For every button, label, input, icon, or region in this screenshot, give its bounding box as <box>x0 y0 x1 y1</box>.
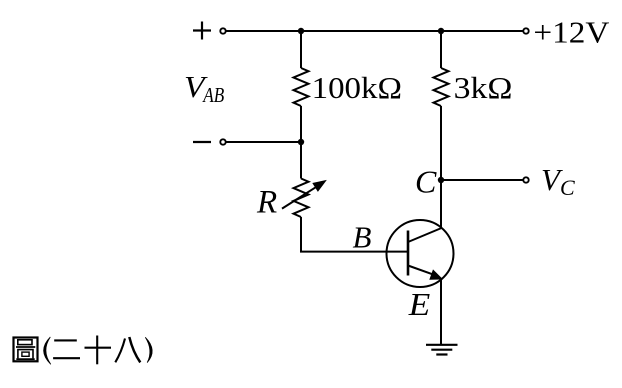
wire top rail to 3k resistor <box>440 31 442 68</box>
junction node C <box>438 177 444 183</box>
terminal +12V (open circle) <box>523 28 528 33</box>
svg-text:100kΩ: 100kΩ <box>312 70 402 105</box>
wire junction to +12V terminal <box>441 30 523 32</box>
plus sign of input <box>193 22 211 40</box>
caption glyph tu (figure) <box>14 338 38 362</box>
terminal + (open circle) <box>220 28 225 33</box>
terminal VC (open circle) <box>523 177 528 182</box>
ground <box>426 345 458 355</box>
resistor 100k <box>294 68 309 106</box>
transistor Q1 <box>387 220 454 287</box>
junction top of 3k column <box>438 28 444 34</box>
minus sign of input <box>193 141 211 143</box>
wire 100k resistor to node A <box>300 106 302 142</box>
junction node A (minus rail / 100k / R) <box>298 139 304 145</box>
svg-text:AB: AB <box>202 83 225 107</box>
svg-text:+12V: +12V <box>533 15 610 50</box>
wire + terminal to top junction <box>226 30 301 32</box>
wire corner to transistor base <box>300 251 408 253</box>
wire emitter to ground <box>440 280 442 345</box>
junction top of 100k column <box>298 28 304 34</box>
wire node C to VC terminal <box>441 179 523 181</box>
caption glyph close paren <box>145 337 152 362</box>
wire − terminal to node A <box>226 141 301 143</box>
wire 3k resistor to node C <box>440 106 442 180</box>
caption glyph open paren <box>44 337 51 364</box>
terminal − (open circle) <box>220 139 225 144</box>
wire top rail to 100k resistor <box>300 31 302 68</box>
caption glyph ten (cross) <box>85 336 112 365</box>
wire top rail between junctions <box>301 30 441 32</box>
resistor 3k <box>434 68 449 106</box>
variable resistor R <box>282 179 326 217</box>
caption glyph two (2 strokes) <box>53 340 80 358</box>
svg-text:C: C <box>415 163 437 199</box>
svg-text:3kΩ: 3kΩ <box>454 70 513 105</box>
wire R to corner <box>300 217 302 252</box>
wire node A to variable resistor R <box>300 142 302 179</box>
wire node C to collector <box>440 180 442 228</box>
svg-text:E: E <box>408 286 431 322</box>
caption glyph eight (2 strokes) <box>115 337 140 362</box>
svg-text:B: B <box>353 220 372 255</box>
svg-text:R: R <box>256 185 277 221</box>
